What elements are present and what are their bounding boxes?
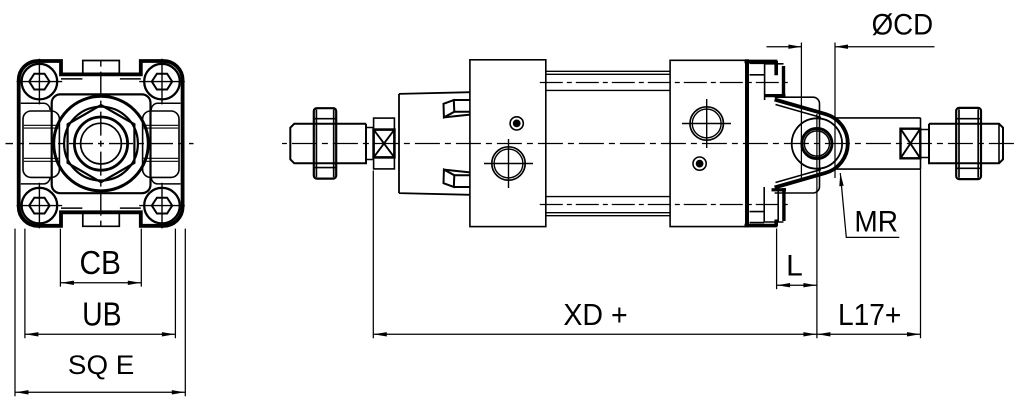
- SQ E extension lines: [15, 229, 185, 397]
- tie rod centerline bottom: [540, 204, 792, 206]
- clevis bottom bar: [745, 220, 778, 227]
- front plug dot: [510, 117, 523, 130]
- arrowheads: [16, 45, 921, 395]
- CB extension lines: [60, 229, 141, 287]
- front flange plate: [470, 60, 546, 227]
- clevis bracket body: [775, 97, 820, 193]
- main axis centerline: [282, 143, 1016, 145]
- MR leader: [840, 173, 899, 237]
- eye boss inner edges: [776, 105, 822, 183]
- bushing box right: [901, 129, 921, 159]
- DIMENSIONS: [15, 43, 935, 397]
- left sensor slot: [23, 111, 59, 177]
- clevis top nut: [765, 64, 786, 96]
- inner edge line top: [61, 78, 141, 80]
- XD arrows: [374, 332, 387, 336]
- piston rod thread left: [290, 124, 366, 164]
- corner step line top-left: [21, 103, 50, 110]
- rod step left: [366, 128, 374, 160]
- rod step right: [921, 130, 930, 158]
- MR arrow: [839, 173, 843, 186]
- bolt top-left: [22, 64, 58, 100]
- L extension line left: [776, 229, 778, 290]
- clevis mounting face line: [745, 59, 749, 227]
- bolt top-right: [144, 64, 180, 100]
- eye pin hole: [802, 128, 832, 158]
- tie-rod nut lower: [444, 170, 471, 187]
- svg-text:MR: MR: [854, 206, 898, 239]
- CB dimension line: [60, 282, 141, 284]
- SIDE VIEW: [282, 59, 1016, 227]
- SQ E dimension line: [15, 391, 185, 393]
- SQ E arrows: [16, 390, 29, 394]
- svg-text:L17+: L17+: [838, 297, 901, 332]
- clevis eye boss outline: [775, 100, 848, 188]
- body outer profile: [19, 61, 183, 226]
- UB dimension line: [25, 333, 176, 335]
- L17 arrows: [817, 332, 830, 336]
- gland bushing box left: [374, 130, 395, 158]
- right sensor slot: [143, 111, 179, 177]
- rod thread right: [929, 124, 1003, 164]
- rod gland left: [374, 118, 395, 169]
- svg-text:XD +: XD +: [563, 297, 627, 332]
- top port tab: [83, 61, 120, 75]
- rear flange plate: [670, 60, 746, 226]
- corner step line top-right: [151, 103, 180, 110]
- svg-text:UB: UB: [82, 296, 122, 333]
- rear port: [690, 107, 723, 140]
- CD dimension line: [767, 46, 935, 48]
- svg-text:L: L: [786, 249, 803, 282]
- corner step line bottom-left: [21, 177, 50, 184]
- clevis top spacer: [750, 63, 765, 100]
- clevis top bar: [745, 61, 778, 75]
- bottom port tab: [83, 212, 120, 226]
- rod sleeve right: [834, 118, 921, 169]
- XD extension line left: [372, 171, 374, 339]
- eye outer circle: [792, 118, 842, 168]
- CB arrows: [61, 281, 74, 285]
- tie rod centerline top: [540, 82, 792, 84]
- bolt bottom-left: [22, 188, 58, 224]
- bore circle outer: [54, 96, 149, 191]
- L arrows: [777, 283, 790, 287]
- UB arrows: [25, 332, 38, 336]
- front port: [492, 147, 525, 180]
- L17 extension line right: [920, 169, 922, 338]
- svg-text:SQ E: SQ E: [68, 350, 134, 380]
- rod nut hexagon: [68, 105, 135, 182]
- rod nut right: [956, 108, 981, 179]
- clevis bottom spacer: [750, 212, 765, 223]
- cylinder tube lines: [546, 71, 670, 215]
- horizontal centerline: [6, 143, 194, 145]
- tie-rod nut upper: [444, 100, 471, 117]
- rear plug dot: [693, 157, 706, 170]
- front cap: [399, 92, 470, 195]
- inner square boss: [52, 94, 151, 193]
- L dimension line: [777, 284, 817, 286]
- svg-text:CB: CB: [79, 244, 121, 281]
- rod nut chamfer circle: [64, 107, 138, 181]
- svg-text:ØCD: ØCD: [872, 9, 934, 42]
- clevis bottom nut: [764, 187, 783, 222]
- LEFT VIEW: [6, 57, 194, 230]
- CD arrows: [788, 45, 801, 49]
- rod nut left: [314, 108, 336, 178]
- inner edge line bottom: [61, 207, 141, 209]
- piston rod circle: [74, 117, 127, 170]
- CD extension lines: [801, 43, 835, 179]
- vertical centerline: [100, 57, 102, 230]
- eye centerline / shared extension line: [816, 114, 818, 338]
- corner step line bottom-right: [151, 177, 180, 184]
- XD and L17 dimension line: [373, 333, 920, 335]
- UB extension lines: [25, 229, 176, 339]
- bolt bottom-right: [144, 188, 180, 224]
- rod thread circle: [81, 123, 122, 164]
